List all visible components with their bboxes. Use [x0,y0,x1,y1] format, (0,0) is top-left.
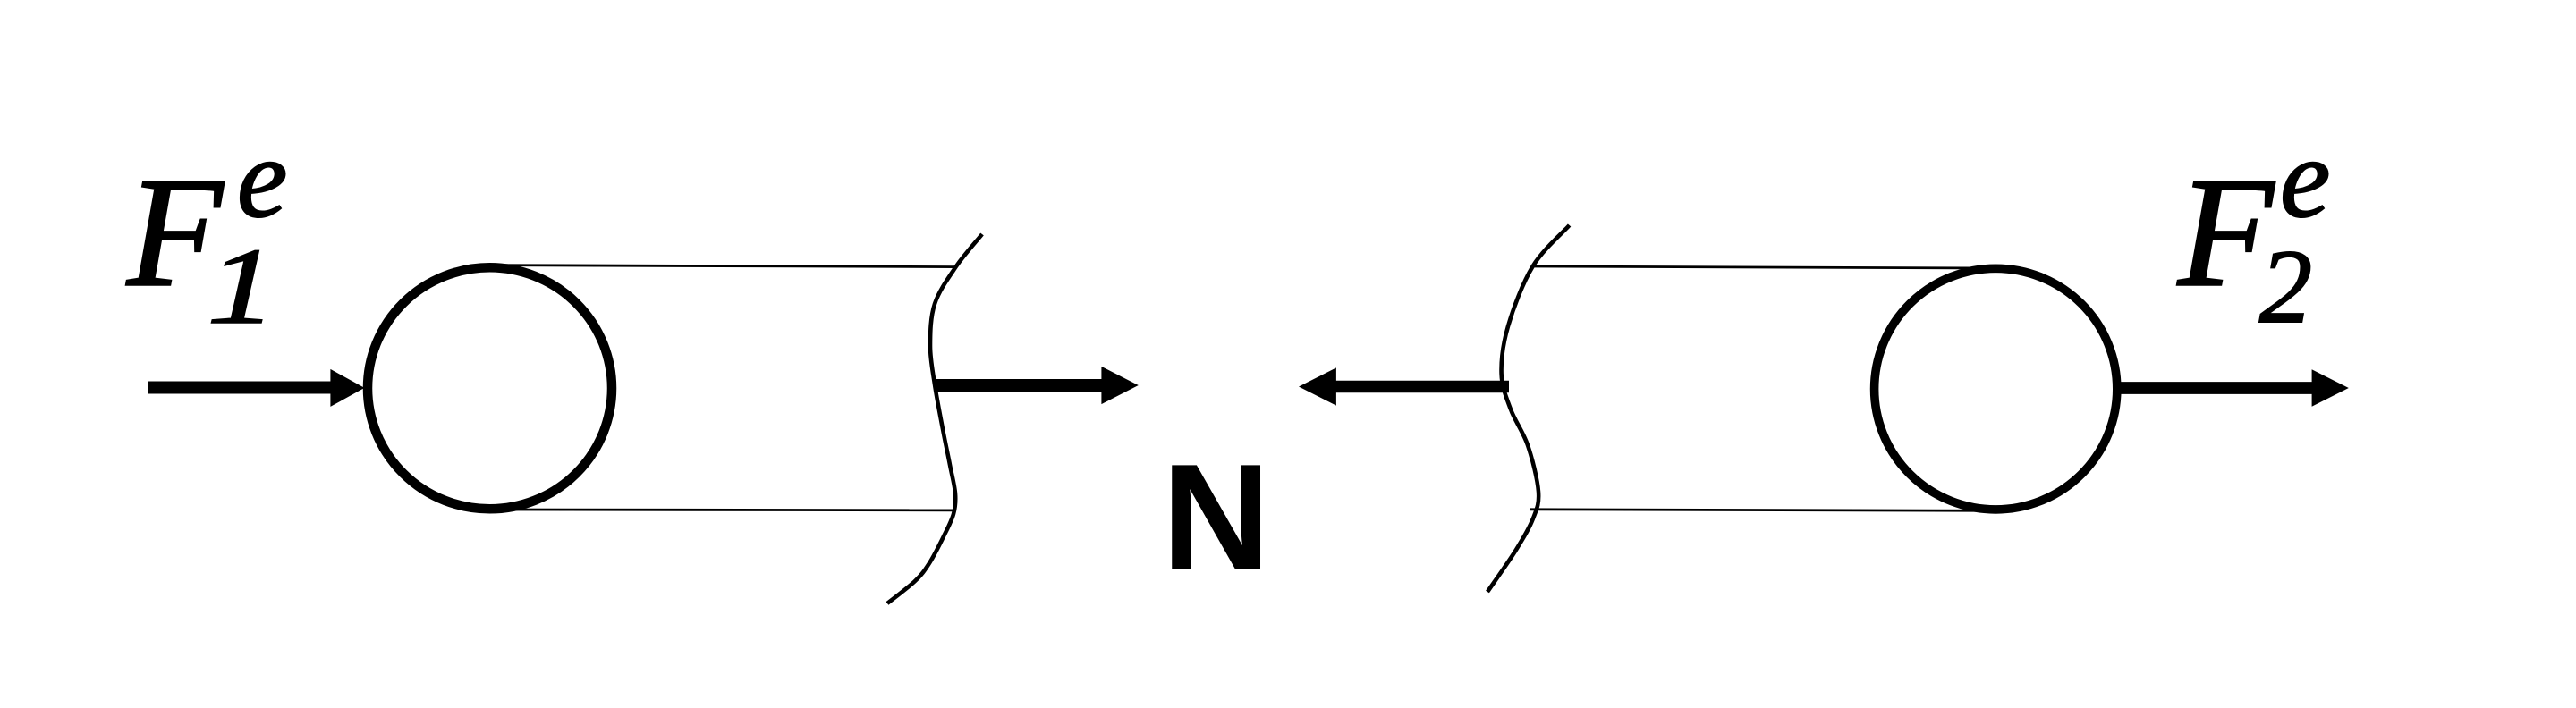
svg-text:1: 1 [207,226,276,347]
cylinder 1 end-face circle [368,267,612,509]
internal force N arrow (left piece) shaft [936,379,1103,392]
internal force N arrow (right piece) head [1299,367,1336,405]
force F1 arrow head [330,369,364,407]
svg-text:2: 2 [2259,228,2312,345]
cylinder 1 break squiggle [887,234,982,603]
cylinder 1 top edge wire [491,265,957,267]
internal force N arrow (right piece) shaft [1335,381,1509,393]
svg-text:N: N [1162,433,1270,601]
cylinder 2 end-face circle [1875,268,2117,510]
svg-text:e: e [237,116,287,241]
cylinder 1 bottom edge wire [492,509,954,512]
cylinder 2 top edge wire [1533,266,1996,268]
internal force N arrow (left piece) head [1101,367,1138,404]
cylinder 2 break squiggle [1487,225,1570,592]
force F1 arrow shaft [148,381,331,393]
svg-text:e: e [2280,116,2330,241]
force F2 arrow head [2312,369,2349,406]
cylinder 2 bottom edge wire [1530,510,1996,511]
force F2 arrow shaft [2121,382,2313,394]
